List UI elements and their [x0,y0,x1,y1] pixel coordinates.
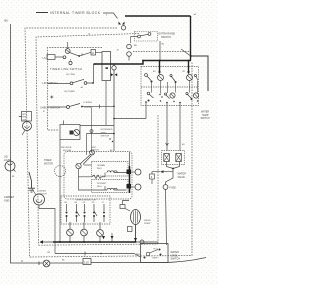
connector block box [102,52,111,81]
svg-text:6: 6 [106,15,107,17]
svg-text:WTR: WTR [22,114,27,116]
heavy wire right drop [190,16,192,61]
wire connector pair to bus [128,56,130,60]
main winding dashed box [92,162,129,177]
svg-text:LO SPEED: LO SPEED [83,102,93,104]
svg-text:2SP: 2SP [22,119,27,121]
main winding coil [107,171,117,173]
wire terminal bar up [129,152,131,166]
svg-text:TIMER LINE SWITCH: TIMER LINE SWITCH [50,67,82,71]
svg-text:HI SPEED: HI SPEED [84,107,93,109]
wt row2 contact c [186,92,192,99]
svg-text:INTERNAL TIMER BLOCK: INTERNAL TIMER BLOCK [50,11,101,15]
connector triangles mid [111,73,117,76]
speed selector dashed box [61,196,110,224]
check switch contact [67,104,83,109]
junction tick above check switch [50,96,53,99]
start switch circle A [76,163,81,168]
bus left arrowhead [40,240,44,243]
drive pump oval [131,210,141,225]
pivot stem up [67,42,69,49]
svg-text:BK: BK [5,19,9,23]
arrowhead left [160,170,164,173]
water level contact [144,249,161,258]
wt row2 dots [159,94,160,95]
wire valve to arrow [164,169,174,172]
timer line switch terminal box [47,55,55,60]
svg-text:GND: GND [4,199,10,202]
connector ring on bus [140,240,144,244]
svg-text:A: A [92,51,94,55]
115v box [83,259,91,265]
junction tick [100,253,102,255]
svg-text:DRIVE: DRIVE [144,220,151,222]
fuse circle [163,185,168,190]
extra rinse switch dashed box [135,32,158,42]
terminal circle 1 [135,169,141,175]
selector column 5 [103,204,104,222]
svg-text:LID OPEN: LID OPEN [66,74,75,76]
water pump terminal box [22,112,32,122]
wire cross to water temp drop [114,118,146,120]
wire lower crossing [87,133,115,135]
cord wire [50,262,83,264]
wire motor down to row [39,205,55,254]
selector column 3 [84,204,85,222]
lid switch wire [48,83,71,85]
lid light lamp [5,161,16,172]
water temp switch dashed box [141,67,199,106]
bus right extension [136,241,158,243]
svg-text:SWITCH: SWITCH [101,136,110,138]
water pump motor circle [23,122,32,131]
wt row1 contact c [194,74,198,80]
dashed wire to right [133,51,190,53]
junction dot bus step [142,60,144,62]
svg-text:SWITCH: SWITCH [161,36,171,39]
wt row1 winding a [158,75,164,81]
check switch wire [48,106,67,108]
terminal square 2 [127,184,132,189]
wire check switch out [83,105,114,107]
svg-text:LID POWER: LID POWER [64,91,75,93]
header leader line [36,12,48,14]
row1 hanging switch mid [112,64,116,106]
junction dot lid wire [94,63,96,65]
tick on mid-bottom wire [84,252,86,256]
svg-text:16: 16 [88,34,90,36]
cord wire right [91,258,206,263]
connector terminal triangles [119,22,125,25]
svg-text:EXTENDED: EXTENDED [101,129,113,131]
wt row2 contact a [147,92,153,101]
winding circle 3 [97,230,104,237]
wt row1 contact a [145,74,153,83]
winding circle 2 [81,229,88,236]
wt row2 bottom dots [160,100,161,101]
wt row1 contact b [170,74,176,82]
bottom bus thin extension [40,241,53,243]
pivot blades [80,155,92,165]
connector code box [91,50,96,56]
wire fuse down [166,189,167,245]
tick left of pump box [19,116,22,118]
svg-text:WDG: WDG [97,186,102,188]
selector column 1 [66,204,67,222]
svg-text:BU: BU [134,45,137,47]
svg-text:WATER: WATER [201,111,209,114]
svg-text:SWITCH: SWITCH [201,118,210,120]
heavy wire top bus [125,15,191,17]
inner dashed enclosure box2 right edge [157,115,159,244]
wt inter-row connector wires [152,81,198,94]
heavy bus middle [94,61,192,65]
wire junction to right bus [191,56,208,91]
wire lid switch out [87,64,94,83]
extra rinse switch contact [138,33,151,38]
pump terminal box [128,227,133,232]
wt row1 winding b [187,75,193,81]
wire wt to valve left [166,103,168,152]
svg-text:FUSE: FUSE [170,187,177,190]
arrowheads on drops [158,72,190,75]
wire into extra rinse [131,36,138,38]
wire branch down to motor [86,134,88,156]
wire motor to ground [32,188,37,195]
drive motor dashed enclosure [64,152,132,200]
tiny connector box above pump [120,205,125,209]
ground symbol [28,172,35,192]
wire from connector block down [105,81,107,126]
arrowhead pump wire [134,238,137,241]
wire to timer line switch [55,56,63,58]
bus junction dots [69,241,71,243]
junction node right [190,55,192,57]
svg-text:TEMP: TEMP [202,115,209,117]
terminal stubs [131,171,135,173]
winding circle 1 [67,229,74,236]
wires selector to bus [69,222,71,242]
header line to connector [103,13,118,19]
tick bottom [38,262,40,266]
wire through timer motor [59,140,61,243]
wire extra rinse down to bus [159,41,161,61]
wires inside motor block [79,169,93,177]
start winding dashed box [92,180,129,193]
water temp heavy drops [159,61,161,74]
wire left vertical bus [11,24,44,263]
water valve dashed box [162,151,185,165]
wire circle out [80,125,114,127]
water level switch box [141,244,169,263]
terminal square 1 [127,170,132,175]
valve coil right [176,154,182,162]
drive motor small circle [34,194,45,205]
water temp divider dashed [141,86,199,88]
svg-text:LS: LS [43,56,46,60]
selector column 2 [76,204,80,222]
wt row2 winding b [193,93,198,98]
wire valve to fuse [166,172,174,185]
inner dashed enclosure box3 [48,48,103,131]
wt row2 contact b [164,93,169,99]
junction dot [113,63,115,65]
svg-text:MOTOR: MOTOR [39,194,47,196]
svg-text:VALVE: VALVE [178,176,186,179]
svg-text:2M DRIVE: 2M DRIVE [61,147,72,149]
svg-text:SWITCH: SWITCH [171,258,181,261]
motor protector circle [74,130,80,136]
tick on check out wire [99,105,101,109]
svg-text:WDG: WDG [97,168,102,170]
valve merge wires [167,162,180,169]
svg-text:PUMP: PUMP [144,223,151,225]
wire diagonal into junction [181,49,190,56]
svg-text:1M AGI: 1M AGI [39,190,46,193]
wire wt to valve right [179,103,181,152]
connector block pins [106,67,109,69]
wt row2 winding a [170,93,175,98]
outer dashed enclosure box1 [25,28,192,257]
svg-text:MOTOR: MOTOR [44,162,53,165]
wire pump down to bus [135,225,137,242]
start winding coil [107,188,117,190]
resistor zigzag [92,175,102,179]
wire down from check node [113,106,115,151]
timer line switch contact [63,49,80,65]
svg-text:LID SWITCH: LID SWITCH [43,81,58,85]
svg-text:CHECK SWITCH: CHECK SWITCH [40,106,60,110]
arrow tick on valve wire [166,143,169,146]
selector column 4 [93,204,97,222]
wire pair to extra rinse [130,37,132,44]
valve junction dot [172,168,174,170]
connector code box on valve feed [152,172,160,174]
junction dots crossing [109,138,110,139]
wt outlet dots [145,101,147,103]
wire pump top [123,201,131,212]
svg-text:FULL: FULL [154,249,158,251]
svg-text:2M START: 2M START [97,182,107,185]
box2 bottom dashed edge [39,244,159,245]
wire from timer line switch [80,52,102,56]
down arrowheads to bus [102,236,105,239]
inner dashed enclosure box2 [36,34,139,245]
plug circle [43,260,50,267]
connector terminal circle [121,26,125,30]
valve coil left [164,154,170,162]
wire water pump stub [22,130,25,135]
connector pair mid circles [127,44,132,56]
svg-text:N: N [21,260,23,263]
svg-text:PMP: PMP [22,117,27,119]
wire row mid-bottom [55,254,141,258]
wire wt out left [145,102,147,106]
connector box lower-left [60,125,80,140]
centrifugal pivot circle [90,150,95,155]
lid switch contact [70,79,87,84]
connector box dark pin [70,131,74,135]
svg-text:2M MAIN: 2M MAIN [97,164,106,167]
svg-text:YL: YL [102,202,104,204]
heavy bottom bus [53,241,136,243]
svg-text:EMPTY: EMPTY [153,257,160,259]
svg-text:115: 115 [84,260,89,264]
heavy terminal bar [129,166,131,193]
junction dot mid [113,133,115,135]
junction dot2 [113,106,115,108]
selector column micro labels [65,202,105,204]
timer motor dashed circle [55,166,66,177]
terminal circle 2 [135,184,141,190]
svg-text:18: 18 [117,50,119,52]
